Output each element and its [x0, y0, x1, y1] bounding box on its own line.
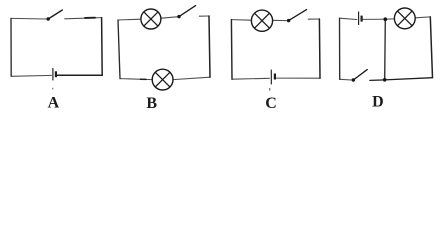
svg-text:D: D — [372, 93, 384, 110]
svg-text:A: A — [48, 95, 60, 112]
svg-text:C: C — [265, 95, 277, 112]
svg-text:B: B — [146, 95, 157, 112]
